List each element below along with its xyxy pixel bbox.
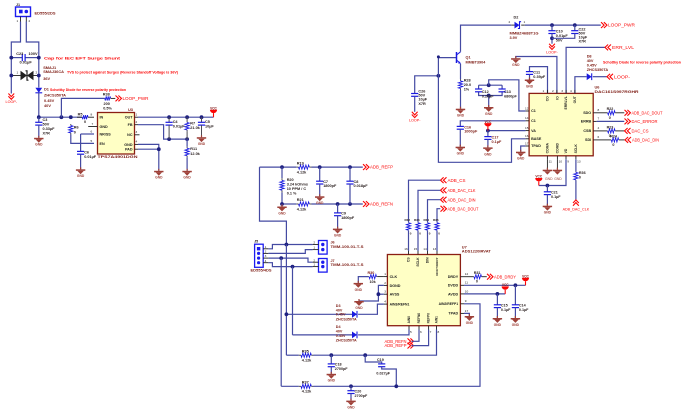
diode D2 zener MMBZ4688T1G xyxy=(511,24,514,26)
svg-text:OUT: OUT xyxy=(573,95,577,103)
svg-text:0.45V: 0.45V xyxy=(336,313,346,317)
svg-text:2700pF: 2700pF xyxy=(335,367,348,371)
ground C15 xyxy=(493,318,502,320)
pin stubs U6 left xyxy=(526,110,530,112)
ground DGND xyxy=(354,301,363,303)
svg-text:IO: IO xyxy=(555,96,559,100)
resistor R5 xyxy=(77,116,82,118)
svg-text:0.1µF: 0.1µF xyxy=(492,140,502,144)
svg-text:AVSS: AVSS xyxy=(390,293,400,297)
svg-text:2700pF: 2700pF xyxy=(355,394,368,398)
svg-text:200: 200 xyxy=(104,102,110,106)
wire FB xyxy=(138,125,187,139)
svg-text:SMAJ36CA: SMAJ36CA xyxy=(43,69,64,74)
ground R28 xyxy=(456,109,465,111)
pin stubs U7 right xyxy=(460,276,464,278)
svg-text:GND: GND xyxy=(485,112,493,116)
svg-text:R19: R19 xyxy=(297,161,304,165)
svg-text:TPS7A4901DGN: TPS7A4901DGN xyxy=(98,154,138,159)
pin stubs U7 left xyxy=(384,276,388,278)
svg-text:GND: GND xyxy=(494,323,502,327)
capacitor C4 xyxy=(168,117,170,122)
diode D4 row xyxy=(293,334,353,336)
wire NR/SS with C6 xyxy=(81,133,94,135)
capacitor C20 xyxy=(350,386,352,390)
svg-text:0.027µF: 0.027µF xyxy=(376,371,390,375)
resistors R32 R33 R34 R35 series xyxy=(408,221,410,223)
flag LOOP- under C10 xyxy=(549,44,555,47)
svg-text:VA: VA xyxy=(531,129,536,133)
svg-text:0.01µF: 0.01µF xyxy=(173,125,186,129)
svg-text:50V: 50V xyxy=(556,38,563,42)
wire DGND AVSS xyxy=(359,285,384,301)
pin NC xyxy=(135,134,140,136)
svg-text:12: 12 xyxy=(465,272,469,276)
svg-text:R22: R22 xyxy=(607,107,614,111)
pin stubs U6 top xyxy=(547,90,549,94)
svg-text:GND: GND xyxy=(512,323,520,327)
wire cluster drop mid xyxy=(285,245,287,356)
svg-text:ERRLVL: ERRLVL xyxy=(564,96,568,109)
svg-text:DOUT/DRDY: DOUT/DRDY xyxy=(435,256,439,275)
svg-text:0.1µF: 0.1µF xyxy=(501,308,511,312)
svg-text:R35: R35 xyxy=(433,218,439,222)
svg-text:SDI: SDI xyxy=(585,138,591,142)
svg-text:ZHCS350TA: ZHCS350TA xyxy=(44,93,66,98)
pin PAD xyxy=(135,148,139,150)
pin stubs U6 bottom xyxy=(546,156,548,160)
wire J5.1 J6.2 xyxy=(268,245,312,249)
resistor R21 xyxy=(296,203,298,205)
svg-text:DAC161S997RGHR: DAC161S997RGHR xyxy=(595,89,639,94)
wire REFN lower xyxy=(282,203,296,205)
svg-text:C20: C20 xyxy=(355,389,362,393)
svg-text:C13: C13 xyxy=(504,90,511,94)
capacitor C18 xyxy=(330,355,332,364)
svg-text:2: 2 xyxy=(552,89,554,93)
svg-text:GND: GND xyxy=(198,142,206,146)
wire VD to VCC xyxy=(539,159,566,185)
svg-text:36V: 36V xyxy=(43,76,50,81)
ground C14 xyxy=(511,318,520,320)
svg-text:17: 17 xyxy=(525,141,529,145)
ground COMA xyxy=(546,159,548,169)
pin SDO R22 flag ADB_DAC_DOUT xyxy=(593,112,600,114)
svg-text:4: 4 xyxy=(384,300,386,304)
svg-text:R33: R33 xyxy=(414,218,420,222)
svg-text:FB: FB xyxy=(128,123,133,127)
ground C12 C13 xyxy=(484,107,493,109)
ground C5 xyxy=(197,137,206,139)
wire REFP drop to cluster xyxy=(260,167,287,244)
power flag LOOP- left xyxy=(8,94,14,97)
svg-text:AIN3/REFN1: AIN3/REFN1 xyxy=(390,303,410,307)
svg-text:2: 2 xyxy=(136,120,138,124)
svg-text:0.01µF: 0.01µF xyxy=(20,59,33,64)
flag ADB_DAC_CLK xyxy=(573,200,579,203)
svg-text:0.1µF: 0.1µF xyxy=(519,308,529,312)
svg-text:ADB_DRDY: ADB_DRDY xyxy=(494,274,516,279)
svg-text:2: 2 xyxy=(384,281,386,285)
pin GND4 xyxy=(135,143,139,145)
transistor Q1 MMBT3904 xyxy=(438,57,456,59)
svg-text:ADB_REFP: ADB_REFP xyxy=(370,165,393,170)
wire J5.2 J6.1 xyxy=(268,250,312,254)
svg-text:TMM-100-01-T-S: TMM-100-01-T-S xyxy=(331,263,365,267)
flag LOOP_PWR left xyxy=(116,96,119,102)
ground TPAD U7 xyxy=(464,313,469,316)
svg-text:4.12k: 4.12k xyxy=(302,390,312,394)
svg-text:1000pF: 1000pF xyxy=(464,130,478,134)
svg-text:GND: GND xyxy=(100,125,109,129)
svg-text:X7R: X7R xyxy=(43,131,51,135)
ground C6 xyxy=(76,169,85,171)
ground C17 xyxy=(483,147,492,149)
svg-text:3: 3 xyxy=(561,89,563,93)
svg-text:Q1: Q1 xyxy=(466,56,471,60)
svg-text:0.33µF: 0.33µF xyxy=(43,127,56,131)
svg-text:D1: D1 xyxy=(44,86,50,91)
svg-text:GND: GND xyxy=(545,177,553,181)
flag ADB_REFP xyxy=(363,164,366,170)
capacitor C9 xyxy=(337,204,339,213)
svg-text:U3: U3 xyxy=(128,107,134,112)
svg-text:9: 9 xyxy=(567,160,569,164)
capacitor C8 xyxy=(349,167,351,181)
pin stubs U7 top xyxy=(408,251,410,255)
svg-text:GND: GND xyxy=(328,379,336,383)
wire J5.3 J7.2 xyxy=(268,258,312,262)
svg-text:X7R: X7R xyxy=(418,102,426,106)
svg-text:0.01µF: 0.01µF xyxy=(84,155,97,159)
capacitor C11 xyxy=(526,71,533,73)
svg-text:VCC: VCC xyxy=(210,106,217,110)
svg-text:C17: C17 xyxy=(492,136,499,140)
svg-text:0.1 %: 0.1 % xyxy=(287,191,297,195)
svg-text:C16: C16 xyxy=(464,125,471,129)
svg-text:VCC: VCC xyxy=(502,283,509,287)
svg-text:2: 2 xyxy=(509,20,511,24)
resistor R6 to EN xyxy=(70,124,72,126)
svg-text:C18: C18 xyxy=(335,363,342,367)
capacitors C12 C13 xyxy=(479,84,503,86)
connector J6 xyxy=(319,241,328,255)
svg-text:GND: GND xyxy=(484,152,492,156)
svg-text:11: 11 xyxy=(465,281,468,285)
wire OUT to VCC xyxy=(138,116,214,118)
svg-text:10 PPM / C: 10 PPM / C xyxy=(287,187,307,191)
svg-text:CLK: CLK xyxy=(390,275,398,279)
power flag VCC out xyxy=(213,113,215,117)
svg-text:4: 4 xyxy=(136,140,138,144)
svg-text:TPAD: TPAD xyxy=(448,312,458,316)
ground C7 xyxy=(315,196,324,198)
svg-text:VD: VD xyxy=(564,148,568,153)
svg-text:GND: GND xyxy=(466,321,474,325)
svg-text:GND: GND xyxy=(347,406,355,410)
connector J5 xyxy=(255,244,264,267)
ground C3 xyxy=(34,138,43,140)
svg-text:20.0: 20.0 xyxy=(464,83,471,87)
svg-text:R32: R32 xyxy=(405,218,411,222)
power flag VCC AVDD xyxy=(504,290,506,294)
svg-text:NC: NC xyxy=(127,133,133,137)
pin stubs U7 bottom xyxy=(408,326,410,330)
flag ADB_DAC_DOUT out xyxy=(441,206,444,212)
svg-text:1: 1 xyxy=(265,245,267,249)
svg-text:BASE: BASE xyxy=(531,137,542,141)
svg-text:GND: GND xyxy=(457,152,465,156)
svg-text:2: 2 xyxy=(313,258,315,262)
svg-text:VCC: VCC xyxy=(485,120,492,124)
svg-text:0.01µF: 0.01µF xyxy=(556,34,569,38)
svg-text:IN: IN xyxy=(100,116,104,120)
diode D1 xyxy=(35,88,42,93)
svg-text:GND: GND xyxy=(512,63,520,67)
svg-text:C19: C19 xyxy=(377,358,384,362)
flag ADB_DAC_CLK in xyxy=(441,187,444,193)
svg-text:COMD: COMD xyxy=(556,142,560,153)
svg-text:Schottky Diode for reverse pol: Schottky Diode for reverse polarity prot… xyxy=(50,87,127,92)
svg-text:R30: R30 xyxy=(368,271,375,275)
svg-text:PAD: PAD xyxy=(125,148,133,152)
svg-text:ED555/2DS: ED555/2DS xyxy=(35,11,56,16)
svg-text:5: 5 xyxy=(91,139,93,143)
svg-text:LOOP-: LOOP- xyxy=(546,50,558,54)
power flag VCC VA xyxy=(488,130,526,132)
ground R20 xyxy=(281,204,283,207)
resistor R35 xyxy=(299,354,301,356)
svg-text:C3: C3 xyxy=(43,118,48,122)
svg-text:ED555/4DS: ED555/4DS xyxy=(251,269,273,273)
svg-text:GND: GND xyxy=(554,177,562,181)
chip U6 DAC161S997 xyxy=(529,93,593,155)
flag ADB_CS xyxy=(441,177,444,183)
svg-text:DVDD: DVDD xyxy=(448,284,459,288)
svg-text:GND: GND xyxy=(316,201,324,205)
svg-text:6: 6 xyxy=(420,330,422,334)
svg-text:0.20µF: 0.20µF xyxy=(482,95,494,99)
svg-text:C5: C5 xyxy=(205,120,210,124)
svg-text:1: 1 xyxy=(384,272,386,276)
svg-text:AIN0: AIN0 xyxy=(407,316,411,323)
svg-text:DIN: DIN xyxy=(426,257,430,263)
wire AIN1 row wire1 xyxy=(286,354,298,356)
svg-text:Schottky Diode for reverse pol: Schottky Diode for reverse polarity prot… xyxy=(603,59,682,64)
capacitor C16 pin14 xyxy=(460,121,525,127)
svg-text:C8: C8 xyxy=(354,180,359,184)
ground C11 xyxy=(525,80,534,82)
svg-text:J5: J5 xyxy=(254,240,258,244)
wire C11 net pin D xyxy=(530,67,548,94)
flag ADB_DRDY xyxy=(487,274,490,280)
ground C9 xyxy=(333,229,342,231)
svg-text:DAC_CS: DAC_CS xyxy=(632,129,649,134)
svg-text:GND: GND xyxy=(183,176,191,180)
svg-text:3.9V: 3.9V xyxy=(510,36,518,40)
svg-text:DGND: DGND xyxy=(390,284,401,288)
svg-text:R7: R7 xyxy=(190,121,195,125)
wire GND PAD xyxy=(138,144,159,170)
ground C21 xyxy=(543,206,552,208)
stub GND pin7 xyxy=(88,126,97,128)
svg-text:R28: R28 xyxy=(464,79,471,83)
svg-text:GND: GND xyxy=(124,143,133,147)
svg-text:REFN0: REFN0 xyxy=(417,313,421,324)
svg-text:8: 8 xyxy=(598,108,600,112)
svg-text:5: 5 xyxy=(410,330,412,334)
ground COMD xyxy=(556,159,558,169)
flag LOOP- under C26 xyxy=(412,112,418,115)
svg-text:GND: GND xyxy=(355,288,363,292)
svg-text:C11: C11 xyxy=(533,70,540,74)
svg-text:NR/SS: NR/SS xyxy=(100,132,112,136)
svg-text:C9: C9 xyxy=(341,212,346,216)
svg-text:GND: GND xyxy=(355,306,363,310)
svg-text:R31: R31 xyxy=(474,271,481,275)
svg-text:ZHCS350TA: ZHCS350TA xyxy=(587,68,609,72)
resistor R36 SCLK xyxy=(575,159,577,172)
svg-text:GND: GND xyxy=(526,84,534,88)
svg-text:C10: C10 xyxy=(556,29,563,33)
power flag VCC DAC xyxy=(538,181,540,185)
svg-text:GND: GND xyxy=(334,234,342,238)
svg-text:LOOP-: LOOP- xyxy=(614,74,631,79)
svg-text:ADB_DAC_DIN: ADB_DAC_DIN xyxy=(632,138,659,143)
svg-text:1%: 1% xyxy=(464,87,470,91)
capacitor C19 differential xyxy=(365,355,382,364)
svg-text:R5: R5 xyxy=(78,112,83,116)
svg-text:1: 1 xyxy=(543,89,545,93)
svg-text:13: 13 xyxy=(433,247,437,251)
svg-text:1: 1 xyxy=(524,20,526,24)
svg-text:16: 16 xyxy=(525,134,529,138)
svg-text:GND: GND xyxy=(278,211,286,215)
svg-text:2: 2 xyxy=(265,250,267,254)
svg-text:ADB_DAC_CLK: ADB_DAC_CLK xyxy=(563,208,590,212)
svg-text:D8: D8 xyxy=(587,55,592,59)
svg-text:GND: GND xyxy=(517,157,525,161)
ground pin E xyxy=(511,58,520,60)
wire xyxy=(26,22,39,88)
flag LOOP- right xyxy=(607,74,610,80)
svg-text:3: 3 xyxy=(265,254,267,258)
capacitor C22 xyxy=(574,25,576,31)
resistor R38 to LOOP_PWR xyxy=(61,98,104,117)
resistor R11 xyxy=(186,147,188,149)
chip U7 ADS1220 xyxy=(387,255,460,326)
svg-text:GND: GND xyxy=(457,114,465,118)
node line VIN xyxy=(38,93,40,117)
svg-text:Cap for IEC EFT Surge Shunt: Cap for IEC EFT Surge Shunt xyxy=(44,55,121,60)
svg-text:D2: D2 xyxy=(514,16,519,20)
svg-text:9: 9 xyxy=(465,299,467,303)
svg-text:0.5%: 0.5% xyxy=(103,106,112,110)
svg-text:0.45V: 0.45V xyxy=(587,64,597,68)
wire BASE route xyxy=(438,57,525,162)
svg-text:6800pF: 6800pF xyxy=(504,95,517,99)
svg-text:ADB_DAC_CLK: ADB_DAC_CLK xyxy=(448,188,476,193)
svg-text:GND: GND xyxy=(35,143,43,147)
svg-text:17: 17 xyxy=(465,309,469,313)
svg-text:X7R: X7R xyxy=(579,40,587,44)
svg-text:LOOP-: LOOP- xyxy=(6,100,18,104)
svg-text:0: 0 xyxy=(612,143,614,147)
svg-text:ERR_LVL: ERR_LVL xyxy=(612,45,635,50)
svg-text:ADS1220IRVAT: ADS1220IRVAT xyxy=(462,249,492,254)
resistor R7 xyxy=(186,121,188,122)
svg-text:GND: GND xyxy=(77,174,85,178)
wire top rail xyxy=(525,24,601,26)
svg-text:REFP0: REFP0 xyxy=(427,313,431,324)
ground C18 xyxy=(327,374,336,376)
svg-text:LOOP-: LOOP- xyxy=(409,118,421,122)
svg-text:C14: C14 xyxy=(519,304,527,308)
wire cluster drop right xyxy=(292,267,294,335)
svg-text:0.39µF: 0.39µF xyxy=(533,75,546,79)
connector J1 xyxy=(16,7,31,17)
svg-text:ADB_DAC_DOUT: ADB_DAC_DOUT xyxy=(448,206,479,211)
svg-text:0: 0 xyxy=(84,120,86,124)
wire J5.4 J7.1 xyxy=(268,263,312,267)
resistor R19 xyxy=(296,166,298,168)
svg-text:SCLK: SCLK xyxy=(574,144,578,154)
svg-text:12.0k: 12.0k xyxy=(190,152,200,156)
flag ERR_LVL xyxy=(605,45,608,51)
capacitor C15 xyxy=(496,294,498,305)
connector J7 xyxy=(319,259,328,273)
svg-text:MMBZ4688T1G: MMBZ4688T1G xyxy=(510,32,539,36)
svg-text:100V: 100V xyxy=(29,51,38,56)
svg-text:15: 15 xyxy=(525,126,529,130)
flag ADB_DAC_DIN in xyxy=(441,197,444,203)
svg-text:TMM-100-01-T-S: TMM-100-01-T-S xyxy=(331,245,365,249)
svg-text:0: 0 xyxy=(74,130,76,134)
svg-text:LOOP_PWR: LOOP_PWR xyxy=(608,23,635,28)
capacitor C3 xyxy=(38,117,40,122)
svg-text:R24: R24 xyxy=(610,134,618,138)
svg-text:0.1µF: 0.1µF xyxy=(551,195,561,199)
capacitor C6 xyxy=(77,150,84,152)
svg-text:R35: R35 xyxy=(302,349,309,353)
svg-text:1800pF: 1800pF xyxy=(341,216,355,220)
svg-text:ZHCS350TA: ZHCS350TA xyxy=(336,317,357,321)
svg-text:40V: 40V xyxy=(587,59,594,63)
svg-text:R36: R36 xyxy=(579,171,586,175)
svg-text:10k: 10k xyxy=(370,280,377,284)
svg-text:6: 6 xyxy=(91,129,93,133)
svg-text:GND: GND xyxy=(544,211,552,215)
svg-text:10: 10 xyxy=(559,160,563,164)
resistor R37 xyxy=(299,385,301,387)
svg-text:R23: R23 xyxy=(607,125,614,129)
svg-text:CO: CO xyxy=(546,96,550,101)
svg-text:MMBT3904: MMBT3904 xyxy=(466,60,487,64)
svg-text:4: 4 xyxy=(570,89,572,93)
svg-text:11: 11 xyxy=(549,160,552,164)
svg-text:8: 8 xyxy=(91,113,93,117)
diode D8 xyxy=(575,77,587,94)
svg-text:TPAD: TPAD xyxy=(531,144,541,148)
svg-text:C15: C15 xyxy=(501,304,508,308)
svg-text:10µF: 10µF xyxy=(205,125,214,129)
wire pin12 xyxy=(489,80,526,111)
svg-text:J1: J1 xyxy=(16,3,20,7)
svg-text:TVS to protect against Surges: TVS to protect against Surges (Reverse S… xyxy=(67,69,179,74)
svg-text:AVDD: AVDD xyxy=(448,292,459,296)
svg-text:3: 3 xyxy=(136,130,138,134)
svg-text:LOOP_PWR: LOOP_PWR xyxy=(123,96,149,101)
